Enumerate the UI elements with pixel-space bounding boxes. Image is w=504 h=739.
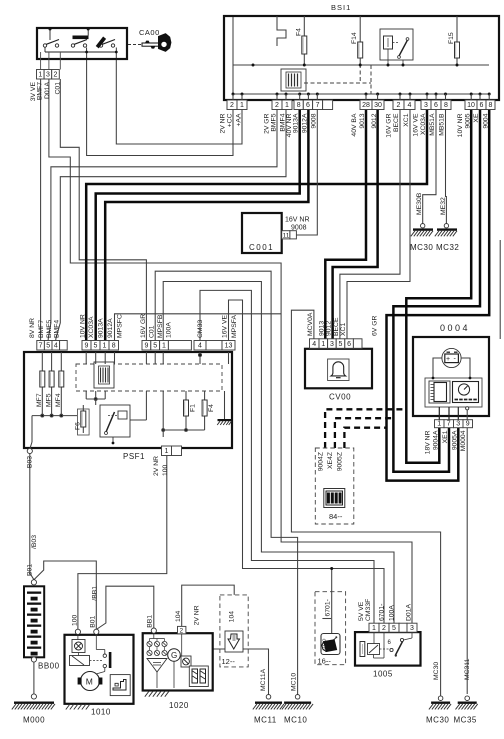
BSI1 pins 2 4 (16V GR)	[393, 100, 404, 110]
relay in PSF1	[100, 405, 130, 444]
1010 pins	[75, 629, 80, 634]
svg-text:5: 5	[94, 343, 98, 350]
wire 9013A (bold) BSI1 pin8 to PSF1 pin5	[96, 110, 300, 342]
svg-text:16V VE: 16V VE	[222, 314, 229, 338]
svg-text:XC03A: XC03A	[420, 113, 427, 135]
starter motor 1010	[65, 635, 134, 704]
wire M0004 from 0004 pin9 to ground MC35	[466, 428, 468, 695]
BSI1 pins 28 30 (40V BA)	[360, 100, 372, 110]
wire right edge artifact	[499, 240, 501, 339]
ground MC30 upper	[421, 224, 425, 228]
wire B01 battery to starter 1010	[34, 561, 96, 629]
svg-text:C01: C01	[148, 325, 155, 338]
svg-text:1: 1	[437, 420, 441, 427]
svg-text:7: 7	[316, 102, 320, 109]
svg-text:F15: F15	[448, 32, 455, 44]
fuse F4b	[204, 396, 206, 420]
wire B03 PSF1 to battery BB00	[30, 453, 34, 580]
wire 100 from PSF1 pin1 to starter 1010	[78, 456, 167, 630]
svg-text:BMF4: BMF4	[53, 320, 60, 338]
svg-text:100: 100	[71, 614, 78, 626]
0004 module pin stubs	[439, 407, 469, 420]
PSF1 terminal B03	[27, 448, 32, 453]
svg-text:100A: 100A	[165, 322, 172, 338]
svg-text:2: 2	[397, 102, 401, 109]
svg-text:11: 11	[283, 232, 290, 239]
svg-text:PSF1: PSF1	[123, 452, 145, 461]
svg-text:5: 5	[46, 343, 50, 350]
svg-text:XE4Z: XE4Z	[327, 452, 334, 469]
svg-text:8: 8	[489, 102, 493, 109]
svg-text:1: 1	[285, 102, 289, 109]
svg-text:9004A: 9004A	[432, 430, 439, 450]
svg-text:18V NR: 18V NR	[424, 430, 431, 454]
svg-text:9012: 9012	[371, 113, 378, 128]
svg-text:40V BA: 40V BA	[351, 113, 358, 137]
fuse F1	[185, 396, 187, 420]
ground MC11	[266, 695, 271, 700]
svg-text:1: 1	[240, 102, 244, 109]
svg-text:9008: 9008	[291, 225, 307, 232]
svg-text:BECE: BECE	[393, 113, 400, 132]
BSI1 pins 2 1 (2V GR)	[272, 100, 282, 110]
wire XC1 BSI1 pin4 to CV00 pin6	[347, 110, 410, 339]
svg-text:9: 9	[144, 343, 148, 350]
wire 100A from PSF1 pin1b to 1005 pin5	[163, 282, 394, 624]
svg-text:9013: 9013	[318, 321, 325, 336]
svg-text:6: 6	[480, 102, 484, 109]
svg-text:B01: B01	[26, 564, 33, 576]
connector 84 dashed box	[315, 448, 354, 524]
ignition switch CA00	[37, 28, 127, 70]
svg-text:MPSFB: MPSFB	[157, 314, 164, 338]
ground MC10	[295, 695, 300, 700]
svg-text:2: 2	[230, 102, 234, 109]
svg-text:5: 5	[392, 625, 396, 632]
svg-text:BMF5: BMF5	[271, 113, 278, 131]
svg-text:9008: 9008	[311, 113, 318, 128]
svg-text:8: 8	[444, 102, 448, 109]
svg-text:F6: F6	[75, 422, 82, 430]
PSF1 pin 13 MPSFA	[222, 341, 235, 351]
dashed wire 9004Z from connector 84	[325, 409, 406, 448]
svg-text:M000: M000	[23, 716, 45, 725]
svg-text:D01A: D01A	[405, 604, 412, 621]
svg-text:4: 4	[54, 343, 58, 350]
1005 pins 1 2 5 3	[369, 623, 379, 632]
wire MCV0A from CV00 pin4 to ground MC30	[291, 310, 440, 696]
PSF1 pin 4 CM33	[194, 341, 206, 351]
svg-text:MC30: MC30	[410, 243, 433, 252]
svg-text:6: 6	[347, 341, 351, 348]
svg-text:100A: 100A	[388, 605, 395, 621]
svg-text:30: 30	[374, 102, 382, 109]
wire MB51A BSI1 to ground MC30	[423, 110, 436, 224]
BSI1 pins 8 6 7 (40V NR)	[294, 100, 303, 110]
0004 pins 1 7 3 9	[435, 420, 445, 428]
svg-text:9004: 9004	[482, 113, 489, 128]
BSI connector icon	[281, 69, 306, 91]
key icon	[128, 34, 171, 52]
svg-text:B01: B01	[90, 615, 97, 627]
svg-text:MB51A: MB51A	[429, 113, 436, 136]
wire D01A from CA00 pin3 to 1005 pin3	[49, 79, 412, 623]
wire C01 from CA00 pin2 to PSF1 pin9	[60, 79, 146, 341]
svg-text:MC30: MC30	[433, 662, 440, 680]
svg-text:BB00: BB00	[38, 662, 60, 671]
1020 pin 2	[151, 628, 156, 633]
wire XE (bold) BSI1 pin6b to 0004 pin7	[393, 110, 480, 472]
wire 9008 BSI1 pin7 to C001 pin11	[296, 110, 317, 236]
wire MPSFB from PSF1 pin5b to ground MC10	[155, 271, 297, 696]
svg-text:1: 1	[162, 343, 166, 350]
svg-text:9013: 9013	[359, 113, 366, 128]
svg-text:+: +	[446, 356, 450, 363]
fuse MF7	[41, 366, 43, 392]
svg-text:MC11A: MC11A	[260, 668, 267, 691]
svg-text:CM33F: CM33F	[365, 599, 372, 621]
dashed wire XE4Z from connector 84	[335, 418, 394, 448]
svg-text:BSI1: BSI1	[331, 3, 351, 12]
svg-text:16V VE: 16V VE	[413, 113, 420, 137]
wire BMF4 from BSI1 to PSF1 pin4	[56, 110, 286, 342]
svg-text:9004Z: 9004Z	[318, 452, 325, 471]
svg-text:3: 3	[424, 102, 428, 109]
BSI internal dashed links	[304, 82, 371, 84]
svg-text:C001: C001	[249, 243, 274, 252]
svg-text:MC10: MC10	[290, 673, 297, 691]
CV00 pins 4 1 3 5 6	[310, 339, 320, 349]
svg-text:XC1: XC1	[340, 323, 347, 336]
svg-text:2V NR: 2V NR	[220, 113, 227, 133]
svg-text:84--: 84--	[329, 512, 343, 521]
BSI1 pins 2 1 (2V NR)	[227, 100, 237, 110]
svg-text:BB1: BB1	[147, 615, 154, 628]
relay box 1005	[355, 632, 421, 666]
svg-text:9005Z: 9005Z	[337, 452, 344, 471]
svg-text:2: 2	[180, 627, 184, 634]
svg-text:3: 3	[46, 72, 50, 79]
ground MC30 lower	[438, 696, 443, 701]
PSF1 internal ground	[217, 419, 231, 425]
svg-text:G: G	[171, 651, 177, 660]
svg-text:16--: 16--	[318, 657, 332, 666]
svg-text:XC1: XC1	[403, 113, 410, 126]
svg-text:9: 9	[85, 343, 89, 350]
svg-text:MC30: MC30	[426, 716, 449, 725]
relay box C001	[242, 213, 282, 253]
ground MC35	[465, 696, 470, 701]
battery icon in 0004	[442, 348, 461, 367]
PSF1 pins 7 5 4	[37, 341, 45, 351]
svg-text:AUTO: AUTO	[322, 638, 327, 651]
svg-text:13: 13	[225, 343, 233, 350]
svg-text:BMF7: BMF7	[37, 82, 44, 100]
svg-text:/B03: /B03	[31, 535, 38, 549]
svg-text:4: 4	[312, 341, 316, 348]
svg-text:1: 1	[38, 72, 42, 79]
PSF1 inner dashed connector	[76, 364, 222, 391]
wire 9004 (bold) BSI1 pin8b to 0004 pin3	[387, 110, 490, 481]
svg-text:2: 2	[54, 72, 58, 79]
svg-text:F4: F4	[208, 404, 215, 412]
svg-text:104: 104	[175, 610, 182, 622]
svg-text:4: 4	[408, 102, 412, 109]
C001 pin 11	[282, 231, 290, 239]
wire M000 battery to ground	[33, 660, 35, 695]
svg-text:CA00: CA00	[139, 28, 160, 37]
horn 16 dashed box	[315, 592, 346, 665]
wire MPSFA from PSF1 pin13 to horn and 1005 pin2	[229, 300, 385, 623]
svg-text:3: 3	[330, 341, 334, 348]
svg-text:ME30B: ME30B	[416, 192, 423, 215]
connector 84 icon	[324, 489, 345, 508]
wire 9005 (bold) BSI1 pin10 to 0004 pin1	[406, 110, 471, 463]
svg-text:F14: F14	[351, 32, 358, 44]
svg-text:7: 7	[447, 420, 451, 427]
svg-text:D01A: D01A	[44, 82, 51, 99]
PSF1 pins 9 5 1 (16V GR)	[142, 341, 151, 351]
svg-text:16V GR: 16V GR	[386, 113, 393, 137]
svg-text:3: 3	[410, 625, 414, 632]
svg-text:16V NR: 16V NR	[285, 217, 310, 224]
svg-text:MC311: MC311	[464, 658, 471, 680]
svg-text:9005A: 9005A	[451, 430, 458, 450]
svg-text:M: M	[86, 677, 93, 687]
svg-text:XE: XE	[473, 113, 480, 123]
wire MPSFC from PSF1 pin8	[115, 314, 282, 341]
svg-text:3: 3	[456, 420, 460, 427]
svg-text:6701-: 6701-	[378, 604, 385, 621]
PSF1 pin 1 (2V NR 100)	[162, 446, 172, 456]
svg-text:+CC: +CC	[227, 113, 234, 127]
svg-text:/BB1: /BB1	[92, 586, 99, 601]
fuse F6	[78, 409, 90, 435]
svg-text:2V GR: 2V GR	[264, 113, 271, 133]
wire 104 alternator pin2 to pressure switch 12	[182, 585, 235, 626]
svg-text:2: 2	[275, 102, 279, 109]
wire BMF5 from BSI1 to PSF1 pin5	[48, 110, 277, 342]
wire 9013 (bold) BSI1 pin28 to CV00 pin1	[325, 110, 366, 339]
svg-text:9013A: 9013A	[293, 113, 300, 133]
svg-text:1: 1	[165, 448, 169, 455]
svg-text:4: 4	[198, 343, 202, 350]
wire BECE BSI1 pin2 to CV00 pin5	[340, 110, 400, 339]
PSF1 inner wires	[30, 352, 229, 449]
svg-text:ME32: ME32	[440, 197, 447, 215]
wire BMF7 from CA00 pin1 to PSF1 pin7	[40, 79, 42, 341]
svg-text:100: 100	[162, 464, 169, 476]
wire 9012 (bold) BSI1 pin30 to CV00 pin3	[333, 110, 378, 339]
wire XC03A (bold) BSI1 pin3 to PSF1 pin9	[86, 110, 427, 342]
ground MC32 upper	[444, 224, 448, 228]
svg-text:MPSFC: MPSFC	[117, 314, 124, 338]
svg-text:XE1: XE1	[442, 430, 449, 443]
svg-text:1005: 1005	[373, 670, 393, 679]
svg-text:104: 104	[229, 611, 236, 623]
svg-text:1: 1	[372, 625, 376, 632]
1020 ground hatch	[145, 691, 169, 697]
ground M000	[31, 694, 36, 699]
svg-text:F1: F1	[190, 404, 197, 412]
svg-text:2V NR: 2V NR	[193, 605, 200, 625]
svg-text:5: 5	[339, 341, 343, 348]
svg-text:M0004: M0004	[460, 430, 467, 451]
svg-text:BECE: BECE	[333, 317, 340, 336]
sensor icon 12	[225, 631, 243, 652]
svg-text:7: 7	[39, 343, 43, 350]
svg-text:6: 6	[306, 102, 310, 109]
svg-text:1010: 1010	[91, 708, 111, 717]
horn icon	[321, 634, 340, 655]
svg-text:MCV0A: MCV0A	[307, 312, 314, 336]
svg-text:9012: 9012	[326, 321, 333, 336]
svg-text:1: 1	[321, 341, 325, 348]
svg-text:MC35: MC35	[454, 716, 477, 725]
svg-text:8: 8	[297, 102, 301, 109]
wire MB51B BSI1 to ground MC32	[445, 110, 448, 224]
battery BB00	[24, 586, 44, 657]
1010 ground hatch	[66, 704, 90, 710]
svg-text:MB51B: MB51B	[439, 113, 446, 136]
horn CV00	[305, 349, 372, 389]
oil pressure switch 12 dashed box	[220, 595, 248, 667]
svg-text:MC32: MC32	[436, 243, 459, 252]
svg-text:9: 9	[466, 420, 470, 427]
fuse MF5	[51, 366, 53, 392]
svg-text:6: 6	[434, 102, 438, 109]
wire MC11A alternator to ground MC11	[213, 649, 269, 695]
svg-text:10V NR: 10V NR	[457, 113, 464, 137]
svg-text:1: 1	[103, 343, 107, 350]
svg-text:9005: 9005	[464, 113, 471, 128]
svg-text:8: 8	[112, 343, 116, 350]
svg-text:XC03A: XC03A	[88, 316, 95, 338]
fuse box PSF1	[24, 352, 232, 448]
relay in BSI1	[380, 29, 413, 65]
svg-text:6V GR: 6V GR	[372, 316, 379, 336]
svg-text:2: 2	[382, 625, 386, 632]
svg-text:5V VE: 5V VE	[358, 601, 365, 621]
svg-text:6701-: 6701-	[325, 599, 332, 616]
svg-text:9013A: 9013A	[98, 318, 105, 338]
wire CM33 from PSF1 pin4 to 1005 pin1	[200, 290, 374, 623]
svg-text:MC10: MC10	[284, 716, 307, 725]
CA00 pins 1 3 2	[37, 70, 45, 80]
wire +AA from CA00 to BSI1 pin 1	[116, 52, 242, 144]
svg-text:12--: 12--	[222, 657, 236, 666]
svg-text:C01: C01	[54, 82, 61, 95]
svg-text:16V GR: 16V GR	[140, 314, 147, 338]
wire +CC from CA00 to BSI1 pin 2	[87, 52, 233, 156]
svg-text:CM33: CM33	[197, 320, 204, 338]
svg-text:CV00: CV00	[329, 393, 351, 402]
svg-text:BMF5: BMF5	[46, 320, 53, 338]
svg-text:B03: B03	[27, 456, 34, 468]
wire 6701- branch to horn 16	[331, 569, 333, 634]
svg-text:2V NR: 2V NR	[153, 456, 160, 476]
svg-text:MPSFA: MPSFA	[231, 314, 238, 338]
svg-text:9012A: 9012A	[107, 318, 114, 338]
alternator 1020	[143, 633, 213, 690]
svg-text:0004: 0004	[440, 323, 470, 333]
dashed wire 9005Z from connector 84	[344, 428, 386, 448]
svg-text:BMF7: BMF7	[38, 320, 45, 338]
svg-text:+AA: +AA	[236, 113, 243, 127]
wire 9012A (bold) BSI1 pin6 to PSF1 pin1	[105, 110, 308, 342]
svg-text:5: 5	[153, 343, 157, 350]
BSI1 pins 10 6 8 (10V NR)	[465, 100, 477, 110]
svg-text:1020: 1020	[169, 701, 189, 710]
svg-text:28: 28	[362, 102, 370, 109]
svg-text:9012A: 9012A	[301, 113, 308, 133]
wire BB1 starter to alternator 1020	[96, 586, 154, 629]
svg-text:MC11: MC11	[254, 716, 277, 725]
svg-text:10V NR: 10V NR	[80, 314, 87, 338]
BSI1 pins 3 6 8 (16V VE)	[421, 100, 431, 110]
svg-text:F4: F4	[295, 28, 302, 36]
fuse MF4	[60, 366, 62, 392]
svg-text:8V NR: 8V NR	[29, 318, 36, 338]
svg-text:10: 10	[467, 102, 475, 109]
PSF1 pins 9 5 1 8	[82, 341, 91, 351]
0004 module	[425, 358, 482, 407]
